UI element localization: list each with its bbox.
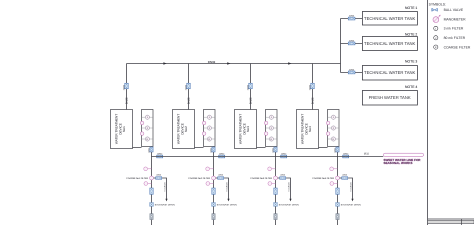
- device box: WATER TREATMENT DEVICE No3: [235, 110, 257, 149]
- svg-text:2Ø25: 2Ø25: [349, 69, 355, 72]
- svg-text:2Ø32: 2Ø32: [281, 153, 287, 156]
- wire: device outlet to filter bank unit 4: [319, 147, 328, 149]
- coarse filter node unit 4: [336, 176, 340, 180]
- svg-text:COARSE No1 FILTER: COARSE No1 FILTER: [126, 177, 148, 180]
- manometer after coarse filter unit 3: [268, 182, 276, 186]
- ball valve on collector after unit 3: [281, 155, 287, 158]
- legend ball valve symbol: [432, 8, 464, 12]
- filter 1 unit 4: [328, 115, 340, 119]
- sweet water cap banner (magenta): [383, 153, 423, 156]
- manometer unit 2: [202, 132, 206, 136]
- manometer after coarse filter unit 1: [144, 182, 152, 186]
- legend filter K symbol: [434, 45, 471, 49]
- ball valve on tank 2 branch: [348, 42, 355, 45]
- svg-text:BACKWASH DRAIN: BACKWASH DRAIN: [155, 203, 175, 206]
- svg-text:MANOMETER: MANOMETER: [444, 18, 467, 22]
- filter 2 unit 4: [328, 126, 340, 130]
- label COARSE FILTER: [312, 177, 334, 180]
- wire: feed drop unit 1: [126, 64, 128, 110]
- svg-text:COARSE FILTER: COARSE FILTER: [444, 45, 471, 49]
- ball valve on feed drop unit 3: [249, 83, 253, 89]
- drain arrow unit 1: [165, 199, 167, 202]
- ball valve on flushing branch unit 3: [280, 177, 286, 180]
- manometer after coarse filter unit 4: [330, 182, 338, 186]
- wire: main supply header DN32: [127, 63, 341, 65]
- ball valve on feed drop unit 1: [125, 83, 129, 89]
- svg-text:COARSE No4 FILTER: COARSE No4 FILTER: [312, 177, 334, 180]
- backwash connection unit 1: [150, 203, 175, 207]
- wire: feed drop unit 3: [250, 64, 252, 110]
- filter K unit 3: [266, 137, 278, 141]
- filter 2 unit 2: [204, 126, 216, 130]
- manometer unit 1: [140, 121, 144, 125]
- drain arrow unit 4: [351, 199, 353, 202]
- svg-text:3 mk FILTER: 3 mk FILTER: [444, 27, 464, 31]
- svg-text:TECHNICAL WATER TANK: TECHNICAL WATER TANK: [364, 70, 416, 75]
- wire: filter bank outlet down unit 1: [151, 147, 153, 226]
- svg-text:NOTE 4: NOTE 4: [405, 85, 417, 89]
- svg-text:NOTE 1: NOTE 1: [405, 6, 417, 10]
- flow arrow on header: [227, 62, 230, 64]
- label DN25: [126, 97, 129, 104]
- flow arrow on header: [163, 62, 166, 64]
- svg-text:2Ø25: 2Ø25: [148, 148, 151, 153]
- svg-text:DN25: DN25: [250, 97, 253, 104]
- device box: WATER TREATMENT DEVICE No1: [111, 110, 133, 149]
- svg-text:SYMBOLS:: SYMBOLS:: [429, 3, 446, 7]
- ball valve below filter bank unit 4: [336, 147, 339, 152]
- backwash connection unit 2: [212, 203, 237, 207]
- svg-text:DN25: DN25: [312, 97, 315, 104]
- wire: flushing branch unit 3: [278, 178, 291, 199]
- tank: FRESH WATER TANK (NOTE 4): [362, 85, 417, 105]
- svg-text:BACKWASH DRAIN: BACKWASH DRAIN: [341, 203, 361, 206]
- svg-text:NOTE 3: NOTE 3: [405, 60, 417, 64]
- wire: collector line to sweet water cap: [152, 156, 384, 158]
- ball valve on collector after unit 1: [157, 155, 163, 158]
- tank: TECHNICAL WATER TANK (NOTE 2): [362, 32, 417, 50]
- svg-text:COARSE No2 FILTER: COARSE No2 FILTER: [188, 177, 210, 180]
- svg-text:No4: No4: [308, 126, 312, 132]
- svg-text:2Ø25: 2Ø25: [122, 84, 125, 90]
- label COARSE FILTER: [126, 177, 148, 180]
- manometer before coarse filter unit 3: [268, 167, 276, 171]
- filter 2 unit 3: [266, 126, 278, 130]
- ball valve below filter bank unit 2: [212, 147, 215, 152]
- label DN25: [250, 97, 253, 104]
- svg-text:DN25: DN25: [126, 97, 129, 104]
- svg-text:No3: No3: [246, 126, 250, 132]
- ball valve on tank 1 branch: [348, 17, 355, 20]
- label DN25: [188, 97, 191, 104]
- manometer before coarse filter unit 1: [144, 167, 152, 171]
- label DN32 on header: [208, 60, 216, 64]
- manometer before coarse filter unit 4: [330, 167, 338, 171]
- wire: feed drop unit 2: [188, 64, 190, 110]
- wire: branch to technical water tank 2: [341, 43, 363, 45]
- manometer before coarse filter unit 2: [206, 167, 214, 171]
- svg-text:DN32: DN32: [208, 60, 216, 64]
- svg-text:TO DRAIN: TO DRAIN: [350, 182, 353, 192]
- filter K unit 4: [328, 137, 340, 141]
- svg-text:TO DRAIN: TO DRAIN: [288, 182, 291, 192]
- ball valve on flushing branch unit 4: [342, 177, 348, 180]
- svg-text:Ø32: Ø32: [364, 153, 369, 156]
- svg-text:2Ø32: 2Ø32: [219, 153, 225, 156]
- title block corner: [428, 219, 474, 225]
- filter bank box unit 1: [142, 110, 154, 147]
- filter K unit 1: [142, 137, 154, 141]
- manometer unit 3: [264, 121, 268, 125]
- filter bank box unit 4: [328, 110, 340, 147]
- label COARSE FILTER: [250, 177, 272, 180]
- wire: device outlet to filter bank unit 2: [195, 147, 204, 149]
- ball valve bottom unit 4: [336, 214, 339, 220]
- svg-text:DN25: DN25: [188, 97, 191, 104]
- svg-text:2Ø25: 2Ø25: [349, 15, 355, 18]
- svg-text:BACKWASH DRAIN: BACKWASH DRAIN: [217, 203, 237, 206]
- coarse filter node unit 1: [150, 176, 154, 180]
- ball valve on lower run unit 2: [212, 188, 215, 194]
- legend manometer symbol: [433, 15, 466, 23]
- wire: feed drop unit 4: [312, 64, 314, 110]
- ball valve on collector after unit 2: [219, 155, 225, 158]
- svg-text:BACKWASH DRAIN: BACKWASH DRAIN: [279, 203, 299, 206]
- wire: filter bank outlet down unit 4: [337, 147, 339, 226]
- manometer unit 4: [326, 132, 330, 136]
- flow arrow on header: [288, 62, 291, 64]
- wire: flushing branch unit 1: [154, 178, 167, 199]
- filter 1 unit 1: [142, 115, 154, 119]
- svg-text:COARSE No3 FILTER: COARSE No3 FILTER: [250, 177, 272, 180]
- wire: filter bank outlet down unit 3: [275, 147, 277, 226]
- filter bank box unit 2: [204, 110, 216, 147]
- drain arrow unit 2: [227, 199, 229, 202]
- legend filter 1 symbol: [434, 26, 464, 30]
- wire: flushing branch unit 4: [340, 178, 353, 199]
- wire: device outlet to filter bank unit 3: [257, 147, 266, 149]
- wire: flushing branch unit 2: [216, 178, 229, 199]
- border: right frame line: [427, 0, 429, 225]
- ball valve on feed drop unit 4: [311, 83, 315, 89]
- ball valve below filter bank unit 3: [274, 147, 277, 152]
- tank: TECHNICAL WATER TANK (NOTE 1): [362, 6, 417, 25]
- ball valve on flushing branch unit 2: [218, 177, 224, 180]
- svg-text:TECHNICAL WATER TANK: TECHNICAL WATER TANK: [364, 16, 416, 21]
- ball valve below filter bank unit 1: [150, 147, 153, 152]
- wire: filter bank outlet down unit 2: [213, 147, 215, 226]
- coarse filter node unit 3: [274, 176, 278, 180]
- ball valve bottom unit 2: [212, 214, 215, 220]
- ball valve on tank 3 branch: [348, 71, 355, 74]
- filter 1 unit 3: [266, 115, 278, 119]
- ball valve on lower run unit 4: [336, 188, 339, 194]
- svg-text:SEASONAL WORKS: SEASONAL WORKS: [384, 161, 413, 165]
- drain arrow unit 3: [289, 199, 291, 202]
- svg-text:2Ø25: 2Ø25: [349, 40, 355, 43]
- manometer unit 2: [202, 121, 206, 125]
- filter 1 unit 2: [204, 115, 216, 119]
- legend filter 2 symbol: [434, 36, 466, 40]
- svg-text:TECHNICAL WATER TANK: TECHNICAL WATER TANK: [364, 41, 416, 46]
- ball valve bottom unit 3: [274, 214, 277, 220]
- svg-text:TO DRAIN: TO DRAIN: [164, 182, 167, 192]
- wire: branch to technical water tank 3: [341, 72, 363, 74]
- device box: WATER TREATMENT DEVICE No2: [173, 110, 195, 149]
- coarse filter node unit 2: [212, 176, 216, 180]
- backwash connection unit 3: [274, 203, 299, 207]
- svg-text:80 mk FILTER: 80 mk FILTER: [444, 36, 466, 40]
- svg-text:2Ø25: 2Ø25: [334, 148, 337, 153]
- wire: riser to tanks: [340, 19, 342, 73]
- label COARSE FILTER: [188, 177, 210, 180]
- svg-text:2Ø32: 2Ø32: [157, 153, 163, 156]
- svg-text:No1: No1: [122, 126, 126, 132]
- ball valve bottom unit 1: [150, 214, 153, 220]
- ball valve on collector after unit 4: [343, 155, 349, 158]
- ball valve on lower run unit 3: [274, 188, 277, 194]
- svg-text:NOTE 2: NOTE 2: [405, 32, 417, 36]
- filter K unit 2: [204, 137, 216, 141]
- svg-text:No2: No2: [184, 126, 188, 132]
- tank: TECHNICAL WATER TANK (NOTE 3): [362, 60, 417, 80]
- wire: branch to technical water tank 1: [341, 18, 363, 20]
- svg-text:2Ø25: 2Ø25: [246, 84, 249, 90]
- svg-text:FRESH WATER TANK: FRESH WATER TANK: [369, 95, 411, 100]
- ball valve on lower run unit 1: [150, 188, 153, 194]
- svg-text:TO DRAIN: TO DRAIN: [226, 182, 229, 192]
- manometer after coarse filter unit 2: [206, 182, 214, 186]
- filter bank box unit 3: [266, 110, 278, 147]
- wire: device outlet to filter bank unit 1: [133, 147, 142, 149]
- manometer unit 3: [264, 132, 268, 136]
- ball valve on flushing branch unit 1: [156, 177, 162, 180]
- manometer unit 1: [140, 132, 144, 136]
- svg-text:2Ø25: 2Ø25: [308, 84, 311, 90]
- manometer unit 4: [326, 121, 330, 125]
- ball valve on feed drop unit 2: [187, 83, 191, 89]
- svg-text:2Ø25: 2Ø25: [210, 148, 213, 153]
- filter 2 unit 1: [142, 126, 154, 130]
- svg-text:2Ø25: 2Ø25: [184, 84, 187, 90]
- backwash connection unit 4: [336, 203, 361, 207]
- svg-text:BALL VALVE: BALL VALVE: [444, 8, 464, 12]
- device box: WATER TREATMENT DEVICE No4: [297, 110, 319, 149]
- svg-text:2Ø25: 2Ø25: [272, 148, 275, 153]
- svg-text:2Ø32: 2Ø32: [343, 153, 349, 156]
- label DN25: [312, 97, 315, 104]
